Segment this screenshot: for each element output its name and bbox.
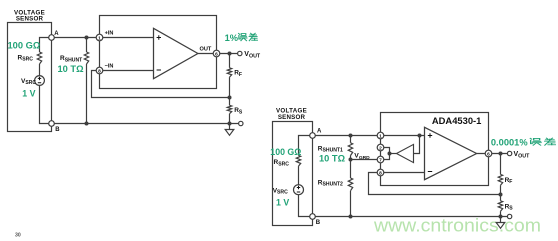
pin 7 guard (bottom) bbox=[377, 156, 384, 163]
junction R_SHUNT bottom (top) bbox=[85, 122, 89, 126]
svg-text:6: 6 bbox=[215, 51, 218, 57]
svg-text:www.cntronics.com: www.cntronics.com bbox=[373, 214, 541, 235]
ground (bottom) bbox=[496, 217, 505, 229]
source V_SRC (bottom) bbox=[294, 185, 304, 195]
svg-text:+IN: +IN bbox=[105, 30, 114, 36]
pin 1 +IN (top) bbox=[96, 34, 103, 41]
wire node A to op-amp +IN (top) bbox=[52, 37, 154, 39]
wire R_SHUNT1 branch (bottom) bbox=[350, 136, 352, 217]
terminal gnd side (bottom) bbox=[507, 214, 511, 218]
svg-text:8: 8 bbox=[98, 68, 101, 74]
svg-text:2: 2 bbox=[379, 145, 382, 151]
resistor R_F (top) bbox=[227, 68, 231, 77]
svg-text:1 V: 1 V bbox=[276, 197, 289, 207]
pin 8 -IN (top) bbox=[96, 67, 103, 74]
svg-text:A: A bbox=[54, 31, 59, 37]
svg-text:1%: 1% bbox=[225, 33, 239, 43]
resistor R_F (bottom) bbox=[498, 174, 502, 185]
wire -IN (top) bbox=[103, 70, 154, 72]
pin 8 (bottom) bbox=[377, 169, 384, 176]
wire guard pin2 stub bbox=[384, 148, 390, 154]
junction ground node (bottom) bbox=[499, 215, 503, 219]
junction R_SHUNT2 bottom (bottom) bbox=[349, 215, 353, 219]
wire pin8 to -IN (bottom) bbox=[384, 172, 425, 174]
wire output (bottom) bbox=[477, 153, 508, 155]
resistor R_SRC (bottom) bbox=[296, 155, 300, 166]
svg-text:B: B bbox=[316, 220, 321, 226]
junction guard node bbox=[388, 152, 392, 156]
node B (top) bbox=[49, 121, 55, 127]
terminal V_OUT (top) bbox=[238, 51, 242, 55]
wire feedback pin8 (top) bbox=[92, 71, 230, 98]
wire node B bus (top) bbox=[54, 123, 239, 125]
junction R_SHUNT1 top (bottom) bbox=[349, 134, 353, 138]
resistor R_SHUNT2 (bottom) bbox=[348, 178, 352, 191]
wire R_SRC branch (bottom) bbox=[299, 136, 313, 156]
wire R_S (top) bbox=[229, 98, 231, 124]
junction output/R_F (bottom) bbox=[499, 152, 503, 156]
wire R_SHUNT branch (top) bbox=[86, 38, 88, 124]
svg-text:7: 7 bbox=[379, 157, 382, 163]
svg-text:1 V: 1 V bbox=[22, 88, 35, 98]
ground (top) bbox=[225, 124, 234, 136]
op-amp ADA4530-1 triangle bbox=[425, 127, 477, 179]
wire R_SRC to V_SRC (top) bbox=[39, 64, 41, 76]
svg-text:1: 1 bbox=[98, 35, 101, 41]
svg-text:SENSOR: SENSOR bbox=[16, 16, 44, 23]
junction ground node (top) bbox=[228, 122, 232, 126]
wire R_S (bottom) bbox=[500, 195, 502, 217]
svg-text:0.0001%: 0.0001% bbox=[491, 137, 528, 147]
wire R_SRC to V_SRC (bottom) bbox=[298, 166, 300, 185]
junction output/R_F (top) bbox=[228, 52, 232, 56]
svg-text:−IN: −IN bbox=[105, 63, 114, 69]
resistor R_S (top) bbox=[227, 105, 231, 113]
junction V_GRD node (bottom) bbox=[349, 158, 353, 162]
guard buffer triangle bbox=[397, 144, 414, 162]
wire buffer input tap bbox=[414, 136, 420, 154]
resistor R_S (bottom) bbox=[498, 201, 502, 212]
wire guard to buffer bbox=[390, 153, 397, 155]
op-amp IC box (top) bbox=[100, 16, 217, 89]
svg-text:B: B bbox=[55, 127, 60, 133]
svg-text:10 TΩ: 10 TΩ bbox=[58, 64, 85, 74]
wire R_SRC branch (top) bbox=[40, 38, 52, 53]
pin 6 OUT (top) bbox=[213, 50, 220, 57]
svg-text:30: 30 bbox=[15, 233, 21, 239]
svg-text:6: 6 bbox=[487, 151, 490, 157]
wire guard pin7 stub bbox=[384, 154, 390, 160]
sensor box (bottom circuit) bbox=[273, 122, 313, 226]
svg-text:OUT: OUT bbox=[200, 46, 212, 52]
junction buffer input on +IN bbox=[418, 134, 422, 138]
junction R_F/R_S/feedback (bottom) bbox=[499, 193, 503, 197]
pin 6 OUT (bottom) bbox=[485, 150, 492, 157]
node A (top) bbox=[49, 35, 55, 41]
wire R_F top (top) bbox=[229, 54, 231, 98]
terminal V_OUT (bottom) bbox=[507, 151, 511, 155]
wire feedback pin8 (bottom) bbox=[369, 173, 501, 195]
node A (bottom) bbox=[310, 133, 316, 139]
svg-text:10 TΩ: 10 TΩ bbox=[319, 153, 346, 163]
wire op-amp output (top) bbox=[198, 53, 238, 55]
wire V_SRC to node B (top) bbox=[40, 85, 49, 123]
resistor R_SRC (top) bbox=[37, 52, 41, 64]
op-amp A1 triangle (top) bbox=[154, 28, 198, 78]
wire R_F top (bottom) bbox=[500, 154, 502, 195]
ADA4530-1 IC box bbox=[381, 113, 489, 186]
wire node A to +IN (bottom) bbox=[313, 135, 425, 137]
resistor R_SHUNT1 (bottom) bbox=[348, 143, 352, 156]
pin 2 guard (bottom) bbox=[377, 144, 384, 151]
source V_SRC (top) bbox=[35, 76, 45, 86]
junction R_F/R_S/feedback (top) bbox=[228, 96, 232, 100]
svg-text:8: 8 bbox=[379, 170, 382, 176]
wire V_SRC to node B (bottom) bbox=[299, 195, 310, 217]
svg-text:ADA4530-1: ADA4530-1 bbox=[432, 115, 482, 126]
svg-text:A: A bbox=[317, 129, 322, 135]
pin 1 (bottom) bbox=[377, 132, 384, 139]
junction R_SHUNT top (top) bbox=[85, 36, 89, 40]
terminal gnd side (top) bbox=[239, 121, 243, 125]
resistor R_SHUNT (top) bbox=[84, 52, 88, 64]
svg-text:SENSOR: SENSOR bbox=[278, 114, 306, 121]
sensor box (top circuit) bbox=[8, 23, 52, 132]
svg-text:100 GΩ: 100 GΩ bbox=[270, 147, 301, 157]
svg-text:100 GΩ: 100 GΩ bbox=[8, 41, 41, 51]
wire node B bus (bottom) bbox=[315, 216, 507, 218]
node B (bottom) bbox=[310, 214, 316, 220]
svg-text:1: 1 bbox=[379, 133, 382, 139]
wire V_GRD to pin7 (bottom) bbox=[351, 159, 378, 161]
